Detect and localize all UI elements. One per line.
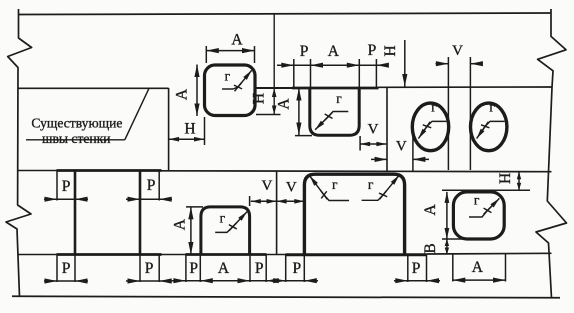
svg-text:г: г — [368, 177, 374, 192]
svg-text:Р: Р — [300, 43, 309, 60]
svg-text:г: г — [431, 100, 437, 115]
svg-text:Н: Н — [382, 45, 399, 56]
svg-text:В: В — [422, 243, 439, 253]
svg-text:А: А — [328, 43, 340, 60]
svg-text:Р: Р — [368, 42, 377, 59]
svg-text:г: г — [336, 91, 342, 106]
svg-text:Р: Р — [412, 260, 421, 277]
svg-text:Р: Р — [189, 260, 198, 277]
svg-text:Р: Р — [255, 260, 264, 277]
svg-text:Н: Н — [251, 93, 268, 104]
svg-text:V: V — [452, 43, 463, 59]
svg-text:V: V — [396, 139, 407, 155]
svg-text:г: г — [332, 177, 338, 192]
svg-text:V: V — [261, 178, 272, 194]
svg-text:Р: Р — [145, 260, 154, 277]
svg-text:Р: Р — [62, 260, 71, 277]
svg-text:Р: Р — [147, 177, 156, 194]
svg-text:г: г — [225, 69, 231, 84]
svg-text:г: г — [489, 100, 495, 115]
svg-text:г: г — [474, 193, 480, 208]
svg-text:А: А — [172, 218, 189, 230]
svg-text:А: А — [472, 259, 484, 276]
svg-text:V: V — [286, 180, 297, 196]
svg-text:А: А — [276, 98, 293, 110]
svg-text:А: А — [231, 32, 243, 49]
svg-text:г: г — [220, 211, 226, 226]
svg-text:А: А — [174, 88, 191, 100]
svg-text:Н: Н — [497, 173, 514, 184]
svg-text:швы стенки: швы стенки — [42, 131, 111, 146]
svg-text:А: А — [218, 260, 230, 277]
svg-text:Существующие: Существующие — [31, 116, 122, 131]
svg-text:Н: Н — [184, 121, 195, 138]
svg-text:А: А — [422, 204, 439, 216]
svg-text:V: V — [368, 122, 379, 138]
svg-text:Р: Р — [292, 260, 301, 277]
svg-text:Р: Р — [62, 178, 71, 195]
